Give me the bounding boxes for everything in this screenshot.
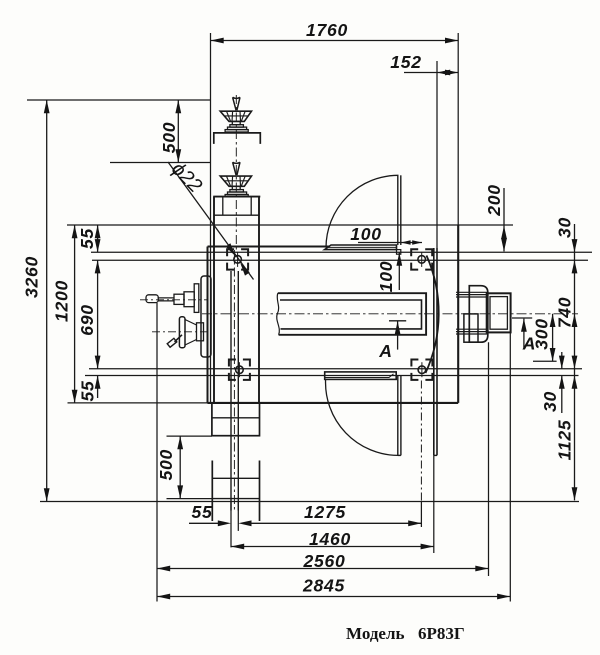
svg-text:1275: 1275 <box>304 502 346 522</box>
table outer outline <box>278 293 426 335</box>
svg-text:100: 100 <box>350 224 381 244</box>
handwheel 2 base <box>225 195 248 197</box>
svg-text:6Р83Г: 6Р83Г <box>418 624 465 643</box>
dimension 740 arrows <box>572 314 578 327</box>
dimension 2560 <box>157 566 489 572</box>
wire: base line y=501.5 <box>40 501 579 503</box>
svg-text:2845: 2845 <box>302 576 345 596</box>
bottom guard edge lines <box>397 376 399 456</box>
anchor bolt top right <box>411 249 432 269</box>
column left edge <box>213 197 215 403</box>
wire: extension line y=225 (machine rear reference) <box>67 224 513 226</box>
dimension 152 <box>404 70 458 76</box>
clamp rounded block <box>469 286 488 343</box>
svg-text:740: 740 <box>555 297 575 328</box>
shaft knob <box>146 295 158 303</box>
wire: vertical extension x=458.2 above machine <box>457 33 459 225</box>
node: crank centerline <box>152 331 208 333</box>
handwheel 2 rim <box>220 176 251 186</box>
svg-text:200: 200 <box>484 184 504 216</box>
wire: extension line y=100 (top of upper handwheel) <box>27 99 211 101</box>
handwheel 1 base <box>225 130 248 132</box>
foot upper block <box>212 403 260 436</box>
shaft lines <box>158 297 175 299</box>
svg-text:500: 500 <box>159 122 179 153</box>
dimension 100 vertical near top right bolt <box>396 253 402 291</box>
anchor bolt bottom left <box>229 360 250 380</box>
wire: extension line y=436.1 <box>167 435 213 437</box>
wire: vertical extension x=238.3 below base <box>237 502 239 531</box>
svg-text:A: A <box>378 341 392 361</box>
column right edge <box>258 197 260 403</box>
dimension 1460 <box>231 544 434 550</box>
machine body left edge <box>207 247 209 403</box>
svg-text:690: 690 <box>77 304 97 335</box>
foot lower block left edge <box>211 461 213 522</box>
foot lower block lines <box>212 477 259 479</box>
wire: vertical extension x=157 (left end of base dims) <box>156 303 158 602</box>
dimension 500 upper left <box>175 100 181 163</box>
column top edge <box>213 196 260 198</box>
machine body bottom edge <box>208 402 459 404</box>
handwheel 2 spike <box>233 162 240 175</box>
dimension 1760 top <box>211 38 459 44</box>
node: shaft 1 centerline <box>140 299 208 301</box>
svg-text:1125: 1125 <box>555 420 575 461</box>
wire: long line y=252.3 <box>91 251 592 253</box>
wire: vertical extension x=510.3 (support edge to 2845) <box>509 332 511 601</box>
dimension 300 right <box>550 314 556 361</box>
brace inner rect <box>490 297 507 330</box>
wire: vertical extension x=433.8 (guard edge to 1460) <box>433 455 435 553</box>
wire: vertical extension x=231 below base <box>230 502 232 548</box>
wire: extension line y=498.6 <box>167 498 213 500</box>
svg-text:30: 30 <box>540 391 560 412</box>
wire: extension y=361.2 (right, for 300) <box>533 360 557 362</box>
dimension 500 lower left <box>177 436 183 499</box>
dimension 2845 <box>157 594 510 600</box>
svg-text:3260: 3260 <box>22 256 42 298</box>
handwheel 1 rim <box>220 111 251 121</box>
node: main centerline <box>202 313 578 315</box>
crank rim <box>179 317 185 348</box>
shaft boss <box>184 292 194 307</box>
column inner right line <box>250 197 252 216</box>
svg-text:500: 500 <box>156 449 176 480</box>
dimension 30 right lower <box>559 352 565 413</box>
svg-text:1760: 1760 <box>306 20 348 40</box>
machine body top edge <box>208 246 331 248</box>
dimension 200 right top <box>501 188 507 251</box>
foot lower block right edge <box>259 461 261 522</box>
bottom guard fan arc <box>326 379 398 455</box>
bottom guard bar <box>325 372 397 380</box>
dimension 3260 <box>44 100 50 502</box>
svg-text:55: 55 <box>78 381 98 402</box>
svg-text:Модель: Модель <box>346 624 405 643</box>
handwheel 1 step <box>230 125 244 127</box>
overarm lines upper <box>456 291 488 293</box>
dimension 30 right top <box>572 224 578 500</box>
saddle guard line b <box>436 248 438 455</box>
crank boss <box>197 323 204 341</box>
handwheel 1 bracket <box>214 133 260 144</box>
crank cone <box>185 320 197 346</box>
svg-text:A: A <box>522 334 536 354</box>
wire: long line y=368.8 <box>89 368 582 370</box>
crank handle <box>175 335 183 342</box>
table break wavy edge <box>277 293 280 335</box>
handwheel 2 step <box>230 190 244 192</box>
svg-text:1200: 1200 <box>52 280 72 322</box>
dimension 1275 <box>249 520 422 526</box>
dimension 55 upper left <box>95 225 101 252</box>
label point A right with arrow <box>512 318 532 350</box>
anchor bolt top left <box>227 249 248 269</box>
svg-text:55: 55 <box>77 228 97 249</box>
shaft nut <box>174 294 184 304</box>
brace outer rect <box>487 293 511 332</box>
swing arc right <box>426 256 439 374</box>
leader diameter 22 <box>168 162 254 280</box>
side cover plate <box>201 276 211 357</box>
top guard blade <box>325 245 397 250</box>
slot right line <box>237 271 239 511</box>
wire: vertical extension x=210.5 from top <box>210 33 212 403</box>
svg-text:55: 55 <box>192 502 213 522</box>
svg-text:30: 30 <box>555 217 575 238</box>
dimension 100 horizontal near top right bolt <box>358 240 422 244</box>
handwheel 1 plate <box>228 127 247 130</box>
slot left line <box>230 271 232 511</box>
wire: long bolt-center line y=260.2 <box>92 259 588 261</box>
node: slot centerline vertical <box>233 250 235 511</box>
dimension 1200 <box>72 225 78 403</box>
wire: long bolt-center line y=375.5 <box>85 375 579 377</box>
dimension 690 <box>95 260 101 369</box>
svg-text:100: 100 <box>376 261 396 292</box>
handwheel 1 spike <box>233 97 240 110</box>
label A at table <box>389 321 406 350</box>
overarm lines lower <box>456 328 488 330</box>
top guard edge lines <box>397 175 399 245</box>
dimension 55 bottom <box>189 520 252 526</box>
table inner outline <box>280 300 422 329</box>
saddle guard line a <box>433 248 435 455</box>
anchor bolt bottom right <box>411 360 432 380</box>
wire: extension line y=402.9 to left dims <box>68 402 208 404</box>
clamp tab <box>464 314 478 342</box>
top guard fan arc <box>326 175 399 248</box>
wire: vertical extension x=488.5 (clamp edge to 2560) <box>488 342 490 576</box>
node: column centerline vertical <box>235 95 237 250</box>
shaft flange <box>194 284 199 313</box>
column inner step line <box>214 214 259 216</box>
wire: vertical extension x=437 from 152 dim <box>436 61 438 248</box>
handwheel 1 stem <box>232 121 240 124</box>
svg-text:2560: 2560 <box>303 551 346 571</box>
svg-text:1460: 1460 <box>309 529 351 549</box>
wire: extension line y=162.5 (top of lower handwheel) <box>110 162 211 164</box>
wire: vertical extension bolt centre x=421.4 <box>420 381 422 502</box>
dimension 55 lower left <box>95 376 101 399</box>
machine body right edge <box>457 225 459 403</box>
svg-text:152: 152 <box>390 52 421 72</box>
handwheel 2 stem <box>232 186 240 189</box>
dimension 1125 arrows <box>572 376 578 389</box>
handwheel 2 plate <box>228 192 247 195</box>
column inner left line <box>222 197 224 216</box>
